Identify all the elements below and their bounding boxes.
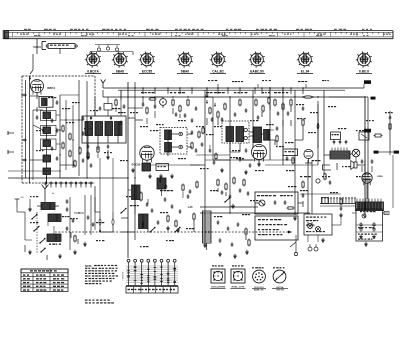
ground xyxy=(258,162,260,164)
svg-text:POSIZIONI: POSIZIONI xyxy=(123,271,125,280)
bus wire xyxy=(86,81,88,178)
resistor below T1 xyxy=(97,147,99,152)
resistor R19 xyxy=(255,100,257,105)
svg-text:ECC85: ECC85 xyxy=(132,163,141,167)
mains plug xyxy=(308,247,312,251)
B+ rail xyxy=(128,96,302,98)
supply internal line xyxy=(356,224,383,226)
driver circle xyxy=(352,149,360,157)
switch S2f xyxy=(175,228,180,232)
wire xyxy=(99,158,101,212)
resistor R17 xyxy=(224,104,226,109)
resistor R42 xyxy=(248,240,250,245)
wire xyxy=(205,159,295,161)
wire xyxy=(367,199,369,202)
wire xyxy=(32,125,34,180)
tuning gang C40 xyxy=(99,218,101,226)
wire xyxy=(307,160,309,214)
bus wire xyxy=(84,195,86,235)
wire xyxy=(94,112,96,116)
svg-text:240: 240 xyxy=(20,197,23,199)
capacitor C11 xyxy=(142,103,145,105)
coil T2b xyxy=(165,143,172,153)
ground xyxy=(360,234,362,236)
capacitor C61 xyxy=(213,161,216,163)
tuner enclosure top xyxy=(22,75,95,77)
tone box xyxy=(255,216,298,240)
wire xyxy=(30,159,44,161)
resistor R41 xyxy=(245,229,247,234)
tuning gang C41 xyxy=(112,218,114,226)
wire xyxy=(300,193,341,195)
resistor R46 xyxy=(182,185,184,190)
bus wire xyxy=(269,88,271,160)
ground xyxy=(340,213,342,215)
coil T3b xyxy=(236,127,244,142)
ground xyxy=(246,250,248,252)
bus wire xyxy=(69,197,71,250)
capacitor C57 xyxy=(274,201,277,203)
capacitor C5 xyxy=(82,132,85,134)
transformer terminals xyxy=(321,199,323,204)
resistor R45 xyxy=(340,199,342,204)
capacitor C53 xyxy=(227,227,230,229)
tube V2 top-view (6BA8) xyxy=(114,53,127,66)
pickup text xyxy=(257,195,260,196)
coil T4a xyxy=(253,127,262,143)
capacitor C69 xyxy=(245,149,248,151)
capacitor C13 xyxy=(175,113,178,115)
coupling lens xyxy=(317,123,319,130)
resistor R40 xyxy=(233,178,235,183)
capacitor C47 xyxy=(187,195,190,197)
wire xyxy=(345,87,364,89)
bandfilter can T1 outline xyxy=(82,116,126,143)
resistor R10 xyxy=(172,100,174,105)
tube V7 top-view (EL.84) xyxy=(299,53,312,66)
antenna input arrow xyxy=(29,78,31,80)
wire xyxy=(44,200,46,202)
magic eye V7a xyxy=(304,149,313,158)
aux antenna terminal xyxy=(16,199,18,207)
bus wire xyxy=(317,104,319,148)
wire xyxy=(44,183,46,185)
ground xyxy=(177,228,179,230)
value label xyxy=(274,92,277,93)
coil L13 xyxy=(157,178,166,189)
svg-text:NOTA: NOTA xyxy=(85,265,92,268)
resistor R2 xyxy=(62,143,64,148)
resistor R1 xyxy=(62,126,64,131)
resistor R15 xyxy=(209,108,211,113)
resistor R9 xyxy=(150,98,155,100)
small parts right-mid xyxy=(324,174,326,179)
wire xyxy=(324,154,330,156)
capacitor C63 xyxy=(249,164,252,166)
resistor R21 xyxy=(268,98,270,103)
switch S3 xyxy=(225,198,230,202)
band switch S2c xyxy=(40,239,45,243)
osc coil L11 xyxy=(132,185,141,200)
loudspeaker LS1 xyxy=(354,162,357,168)
voltage tag xyxy=(364,129,371,133)
wire xyxy=(230,151,240,153)
trimmer C15 xyxy=(179,132,183,136)
bus wire xyxy=(120,90,122,116)
triode V2a xyxy=(140,146,154,160)
capacitor C65 xyxy=(120,121,123,123)
ground xyxy=(87,155,89,157)
capacitor C67 xyxy=(191,119,194,121)
capacitor C44 xyxy=(164,198,167,200)
feedback wire xyxy=(379,151,394,153)
rail junctions xyxy=(127,96,128,97)
svg-text:6.BU.8: 6.BU.8 xyxy=(359,70,369,74)
triode V1a envelope xyxy=(31,80,44,93)
capacitor C41b xyxy=(92,223,95,225)
wire xyxy=(46,107,48,112)
tuner enclosure left wall xyxy=(21,76,23,183)
selector text xyxy=(306,217,309,218)
ganging dashed link xyxy=(55,231,292,233)
capacitor below T1 a xyxy=(87,145,90,147)
HT rail lower xyxy=(118,89,345,91)
capacitor C58 xyxy=(284,201,287,203)
ground xyxy=(167,226,169,228)
dial lamp DL3 xyxy=(115,48,118,51)
resistor R24 xyxy=(290,100,292,105)
ground xyxy=(132,168,134,170)
resistor R5 xyxy=(74,161,76,166)
wire xyxy=(17,211,25,213)
wire xyxy=(265,164,318,166)
capacitor C62 xyxy=(239,158,242,160)
ground xyxy=(245,170,247,172)
resistor R43 xyxy=(288,207,293,209)
bus wire xyxy=(65,100,67,170)
coil L3 xyxy=(43,127,51,134)
HT+ rail xyxy=(103,87,345,89)
ground xyxy=(84,242,86,244)
bus wire xyxy=(252,90,254,148)
resistor R26 xyxy=(302,120,304,125)
capacitor C66 xyxy=(123,105,126,107)
capacitor C2b xyxy=(51,147,54,149)
trimmer C16 xyxy=(179,145,183,149)
resistor R8 xyxy=(146,108,148,113)
capacitor C68 xyxy=(209,149,212,151)
tuning meter lens xyxy=(302,96,314,99)
components right of T2 xyxy=(198,132,200,137)
trimmer C10 xyxy=(110,117,112,119)
dial legend text xyxy=(24,29,27,30)
wire xyxy=(8,170,60,172)
resistor R20 xyxy=(262,106,264,111)
capacitor C20 xyxy=(221,118,224,120)
capacitor C8b xyxy=(23,159,25,162)
switch contact matrix xyxy=(127,259,130,262)
trimmer C23 xyxy=(244,128,247,131)
coil L5 xyxy=(43,155,51,162)
wire xyxy=(120,90,122,100)
volume potentiometer P1 xyxy=(259,200,265,206)
supply box outline xyxy=(356,209,383,241)
ground xyxy=(234,254,236,256)
junction xyxy=(142,96,143,97)
wire xyxy=(56,114,60,116)
tube V3 top-view (ECC85) xyxy=(141,53,154,66)
ground xyxy=(294,216,296,218)
screen resistor R13 xyxy=(156,164,169,171)
resistor R18 xyxy=(239,100,241,105)
supply text xyxy=(358,234,360,235)
coupling box xyxy=(331,132,341,140)
value label xyxy=(160,190,163,191)
trimmer C24 xyxy=(244,136,247,139)
ferrite antenna L8 xyxy=(41,203,55,210)
resistor R37 xyxy=(193,214,195,219)
caps row xyxy=(333,141,336,143)
junction xyxy=(78,119,79,120)
AGC bus xyxy=(134,82,136,232)
wire xyxy=(134,199,136,214)
svg-text:EL.84: EL.84 xyxy=(301,70,310,74)
can outline xyxy=(41,111,57,121)
resistor R3 xyxy=(69,134,71,139)
ground xyxy=(107,155,109,157)
wire xyxy=(161,189,163,196)
bus wire xyxy=(294,90,296,215)
resistor R36 xyxy=(175,221,177,226)
ground xyxy=(219,252,221,254)
rectifier V8a envelope xyxy=(362,173,372,183)
ground xyxy=(29,250,31,252)
wire xyxy=(8,177,128,179)
band switch S2b xyxy=(34,227,39,231)
svg-text:OSCILLATORE: OSCILLATORE xyxy=(211,286,226,289)
svg-text:VITE FM: VITE FM xyxy=(276,289,284,291)
heater stub xyxy=(217,84,219,88)
bus wire xyxy=(282,88,284,165)
ground xyxy=(160,174,162,176)
voltage table xyxy=(21,269,68,292)
corner tag xyxy=(371,97,376,100)
bottom note text xyxy=(85,300,88,301)
capacitor C45 xyxy=(171,205,174,207)
ground xyxy=(365,242,367,244)
tube V4 top-view (6BA6) xyxy=(179,53,192,66)
ground xyxy=(373,234,375,236)
capacitor C21 xyxy=(206,94,209,96)
coil T1b xyxy=(95,122,103,136)
small cap xyxy=(99,107,102,109)
resistor R50 xyxy=(215,154,217,159)
can outline xyxy=(41,139,57,150)
pickup box xyxy=(255,192,298,214)
AGC arrow xyxy=(214,105,216,107)
transformer teeth xyxy=(331,148,333,152)
selector lamp LP1 xyxy=(308,224,313,229)
switch S2e xyxy=(150,228,155,232)
resistor R34 xyxy=(140,193,142,200)
valve base socket xyxy=(253,270,266,283)
wire xyxy=(329,96,365,98)
capacitor C70 xyxy=(276,127,279,129)
resistor R6 xyxy=(79,148,81,153)
wire xyxy=(200,212,310,214)
resistor R14 xyxy=(191,143,193,148)
svg-text:6.BQ7A: 6.BQ7A xyxy=(87,70,99,74)
trimmer tool socket xyxy=(273,270,286,283)
bus wire xyxy=(204,90,206,240)
capacitor C6b xyxy=(82,159,85,161)
dipole antenna A2 xyxy=(44,189,46,200)
resistor R48 xyxy=(115,100,117,105)
coil L7 xyxy=(142,163,151,171)
capacitor C46 xyxy=(179,210,182,212)
resistor R11 xyxy=(179,106,181,111)
bus wire xyxy=(323,90,325,165)
coil label xyxy=(49,244,51,245)
ground xyxy=(204,243,206,245)
osc coil L10 xyxy=(47,234,61,242)
coil L6 xyxy=(43,168,51,175)
stub xyxy=(8,132,14,134)
band switch S2a xyxy=(32,215,37,219)
capacitor C28 xyxy=(286,157,289,159)
capacitor below T1 b xyxy=(107,145,110,147)
tube V6 top-view (EABC.80) xyxy=(251,53,264,66)
resistor R40b xyxy=(243,180,245,185)
wire xyxy=(128,107,143,109)
tube V8 top-view (6.BU.8) xyxy=(358,53,371,66)
far right column xyxy=(389,111,391,155)
earth terminal xyxy=(29,199,31,207)
switch S4 xyxy=(362,214,366,218)
terminal strip line xyxy=(320,203,356,205)
bus wire xyxy=(212,97,214,160)
voltage tag xyxy=(364,80,371,84)
ground xyxy=(322,238,324,240)
capacitor C51b xyxy=(247,192,250,194)
tube V1 top-view (6.BQ7A) xyxy=(87,53,100,66)
resistor R49 xyxy=(202,128,204,133)
capacitor C26 xyxy=(277,112,280,114)
capacitor C54 xyxy=(237,223,240,225)
IF can T3 outline xyxy=(222,121,249,143)
wire xyxy=(60,94,79,96)
wire xyxy=(270,129,274,131)
value label xyxy=(200,168,202,169)
value label xyxy=(141,92,144,93)
tuner enclosure right wall xyxy=(94,76,96,116)
HT feed wire xyxy=(364,97,366,215)
rail taps xyxy=(142,88,144,94)
tuner enclosure inner wall 2 xyxy=(25,80,27,178)
connector pins P1 xyxy=(45,182,47,184)
tuner enclosure inner wall xyxy=(29,76,31,183)
capacitor C8 xyxy=(23,139,25,142)
bus wire xyxy=(229,97,231,213)
resistor R16 xyxy=(217,112,219,117)
trimmer C2 xyxy=(56,129,59,131)
transformer teeth xyxy=(356,199,358,203)
edge tag xyxy=(394,151,400,154)
arrow end xyxy=(288,231,292,234)
wire xyxy=(32,54,34,70)
svg-text:EZ80: EZ80 xyxy=(377,176,383,178)
trimmer pair xyxy=(66,200,69,202)
pentode V4a xyxy=(252,145,267,160)
junction xyxy=(36,46,37,47)
resistor R4 xyxy=(69,151,71,156)
bus wire xyxy=(317,101,319,158)
detector alignment socket xyxy=(231,269,245,283)
capacitor C4 xyxy=(82,117,85,119)
dial lamp DL2 xyxy=(106,47,109,50)
coupling coil box xyxy=(104,104,112,111)
neon stabilizer N1 xyxy=(160,99,167,106)
capacitor C38 xyxy=(72,219,75,221)
svg-text:CAL.B2: CAL.B2 xyxy=(212,70,224,74)
svg-text:UM07A: UM07A xyxy=(47,87,55,90)
capacitor C7 xyxy=(23,94,25,97)
wire xyxy=(150,164,200,166)
relay box xyxy=(359,132,369,140)
wire xyxy=(172,133,179,135)
capacitor C14 xyxy=(184,114,187,116)
padding cap C48 xyxy=(157,221,160,223)
selector text2 xyxy=(306,225,308,226)
coil L4 xyxy=(43,140,51,147)
tuner enclosure bottom xyxy=(22,182,95,184)
resistor R39 xyxy=(225,184,227,189)
capacitor C42 xyxy=(146,203,149,205)
capacitor C40b xyxy=(87,216,90,218)
tube V5 top-view (CAL.B2) xyxy=(212,53,225,66)
capacitor C39 xyxy=(66,227,69,229)
coil T2a xyxy=(165,130,172,140)
ground xyxy=(59,254,61,256)
HT feed wire xyxy=(314,96,368,98)
mains cord xyxy=(295,235,297,252)
band switch S2d xyxy=(121,209,126,213)
detector diode box D1 xyxy=(283,149,298,156)
gang arrow xyxy=(99,229,101,231)
trimmer C3 xyxy=(56,157,59,159)
FM oscillator coil L1 xyxy=(39,97,53,108)
wire xyxy=(87,150,89,155)
trimmer C9 xyxy=(90,117,92,119)
capacitor C60 xyxy=(340,207,343,209)
value label xyxy=(230,157,232,158)
stub xyxy=(8,151,14,153)
resistor R38 xyxy=(217,180,219,185)
value label xyxy=(300,176,302,177)
capacitor C49 xyxy=(221,191,224,193)
resistor R23 xyxy=(282,104,284,109)
ground xyxy=(74,250,76,252)
capacitor above rectifier xyxy=(361,160,364,162)
resistor R51 xyxy=(276,136,278,141)
dial lamp bracket xyxy=(90,51,133,53)
svg-text:1.A8: 1.A8 xyxy=(188,206,194,209)
feedback tag xyxy=(374,151,379,154)
ground xyxy=(232,204,234,206)
coil T3a xyxy=(226,127,234,142)
wire xyxy=(87,150,89,158)
lamp wires xyxy=(98,45,100,48)
